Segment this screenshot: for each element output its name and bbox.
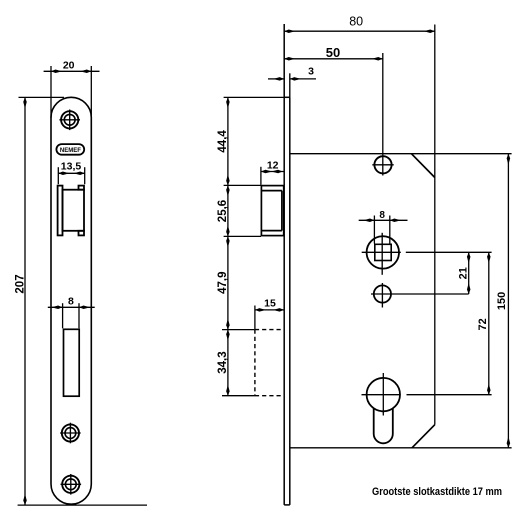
dimension 12 [261,159,284,185]
dimension 80 [284,15,435,33]
lock case bottom chamfer [412,425,435,448]
svg-text:150: 150 [496,292,508,310]
screw hole top (front view) [59,110,80,131]
deadbolt thrown dashed outline (side view) [255,330,284,396]
lock case top chamfer [411,154,434,178]
svg-text:21: 21 [457,267,469,279]
faceplate side view [284,24,290,505]
latch bolt side view [261,186,283,236]
lock case right edge [434,25,436,425]
svg-text:50: 50 [326,45,340,60]
dimension 20 [44,60,100,118]
lock case bottom edge [290,447,512,449]
svg-text:25,6: 25,6 [217,200,229,222]
NEMEF logo [56,144,84,155]
svg-text:47,9: 47,9 [217,272,229,294]
svg-text:34,3: 34,3 [217,351,229,373]
dimension 3 [268,65,316,97]
svg-text:80: 80 [349,15,363,29]
euro profile cylinder hole [367,378,400,443]
dimension 150 [496,154,510,448]
dimension 72 [477,252,490,394]
svg-text:8: 8 [379,210,385,221]
dimension 8 (front deadbolt slot width) [48,296,95,329]
latch bolt front view [58,186,84,236]
svg-text:12: 12 [267,159,279,171]
dimension 207 [15,97,147,505]
svg-text:3: 3 [308,65,314,77]
chain dimension 44,4 / 25,6 / 47,9 / 34,3 [217,97,284,395]
svg-text:20: 20 [63,60,75,72]
svg-text:13,5: 13,5 [61,161,82,173]
deadbolt slot front view [64,329,80,396]
screw hole bottom (front view) [61,474,82,495]
dimension 15 [255,298,284,329]
svg-text:8: 8 [68,296,74,308]
dimension 50 [284,45,383,175]
dimension 8 (follower square) [359,210,408,244]
svg-text:15: 15 [264,298,276,310]
dimension 21 [457,252,470,294]
screw hole middle (front view) [60,423,81,444]
small hole below follower [371,283,469,308]
svg-text:Grootste slotkastdikte 17 mm: Grootste slotkastdikte 17 mm [372,486,502,498]
lock case top edge [290,153,512,155]
svg-text:44,4: 44,4 [217,130,229,153]
follower hole with square spindle [362,233,492,275]
svg-text:NEMEF: NEMEF [60,147,81,154]
screw hole lock case (side view) [372,156,393,173]
faceplate front view outline [51,97,91,504]
dimension 13,5 [58,161,84,185]
svg-text:72: 72 [477,318,489,330]
svg-text:207: 207 [15,274,27,293]
